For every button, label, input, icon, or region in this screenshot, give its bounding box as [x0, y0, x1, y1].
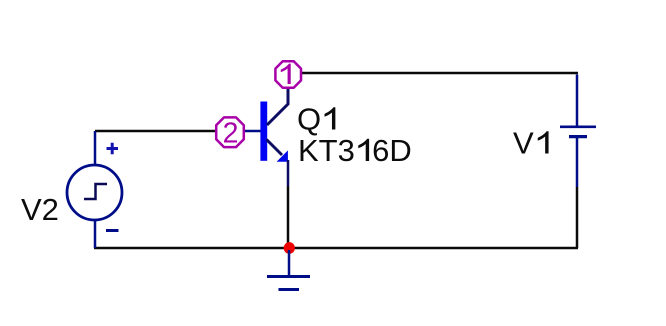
- ground bar short: [279, 288, 300, 291]
- svg-text:V2: V2: [21, 192, 59, 227]
- battery V1 positive plate (long): [560, 126, 596, 129]
- V2 plus sign: [107, 143, 119, 155]
- transistor Q1 emitter arrowhead: [277, 150, 288, 161]
- node 2 (numbered contact, magenta squircle): [216, 117, 244, 147]
- wire: V2 bottom lead (navy): [94, 219, 97, 248]
- svg-text:KT3: KT3: [298, 133, 355, 168]
- label KT316D digit 1: [358, 139, 369, 161]
- node 1 digit 1: [281, 64, 291, 84]
- wire: emitter to bottom rail (black): [287, 186, 290, 248]
- V2 minus sign: [106, 229, 119, 232]
- wire: left horizontal from V2 corner to node 2: [95, 130, 216, 133]
- ground bar long: [267, 275, 310, 278]
- label V1 digit 1: [538, 131, 549, 153]
- wire: right vertical black segment down to bottom rail: [576, 187, 579, 248]
- transistor Q1 base bar (blue): [260, 102, 267, 161]
- voltage source V2 circle: [67, 165, 122, 220]
- wire: V1 top lead (navy) from corner down to battery plate: [576, 75, 579, 127]
- wire: top horizontal from node 1 to V1 top corner: [301, 72, 578, 75]
- V2 pulse (step) symbol: [84, 184, 107, 199]
- wire: V1 bottom lead (navy): [576, 138, 579, 187]
- battery V1 negative plate (short): [569, 135, 587, 138]
- svg-text:V: V: [513, 126, 534, 161]
- junction dot (red): [284, 242, 295, 254]
- wire: V2 top lead (navy): [94, 131, 97, 166]
- label Q1 digit 1: [325, 107, 336, 129]
- ground stub wire (navy): [288, 250, 291, 276]
- svg-text:Q: Q: [297, 102, 321, 137]
- transistor Q1 emitter lead vertical (navy): [287, 160, 290, 186]
- node 1 (numbered contact, magenta squircle): [275, 61, 301, 87]
- wire: bottom horizontal rail: [94, 247, 578, 250]
- transistor Q1 collector lead: [267, 89, 288, 126]
- svg-text:6D: 6D: [372, 133, 412, 168]
- transistor Q1 emitter lead diagonal: [267, 140, 283, 156]
- transistor Q1 base lead (navy): [245, 130, 261, 133]
- svg-text:2: 2: [223, 118, 239, 150]
